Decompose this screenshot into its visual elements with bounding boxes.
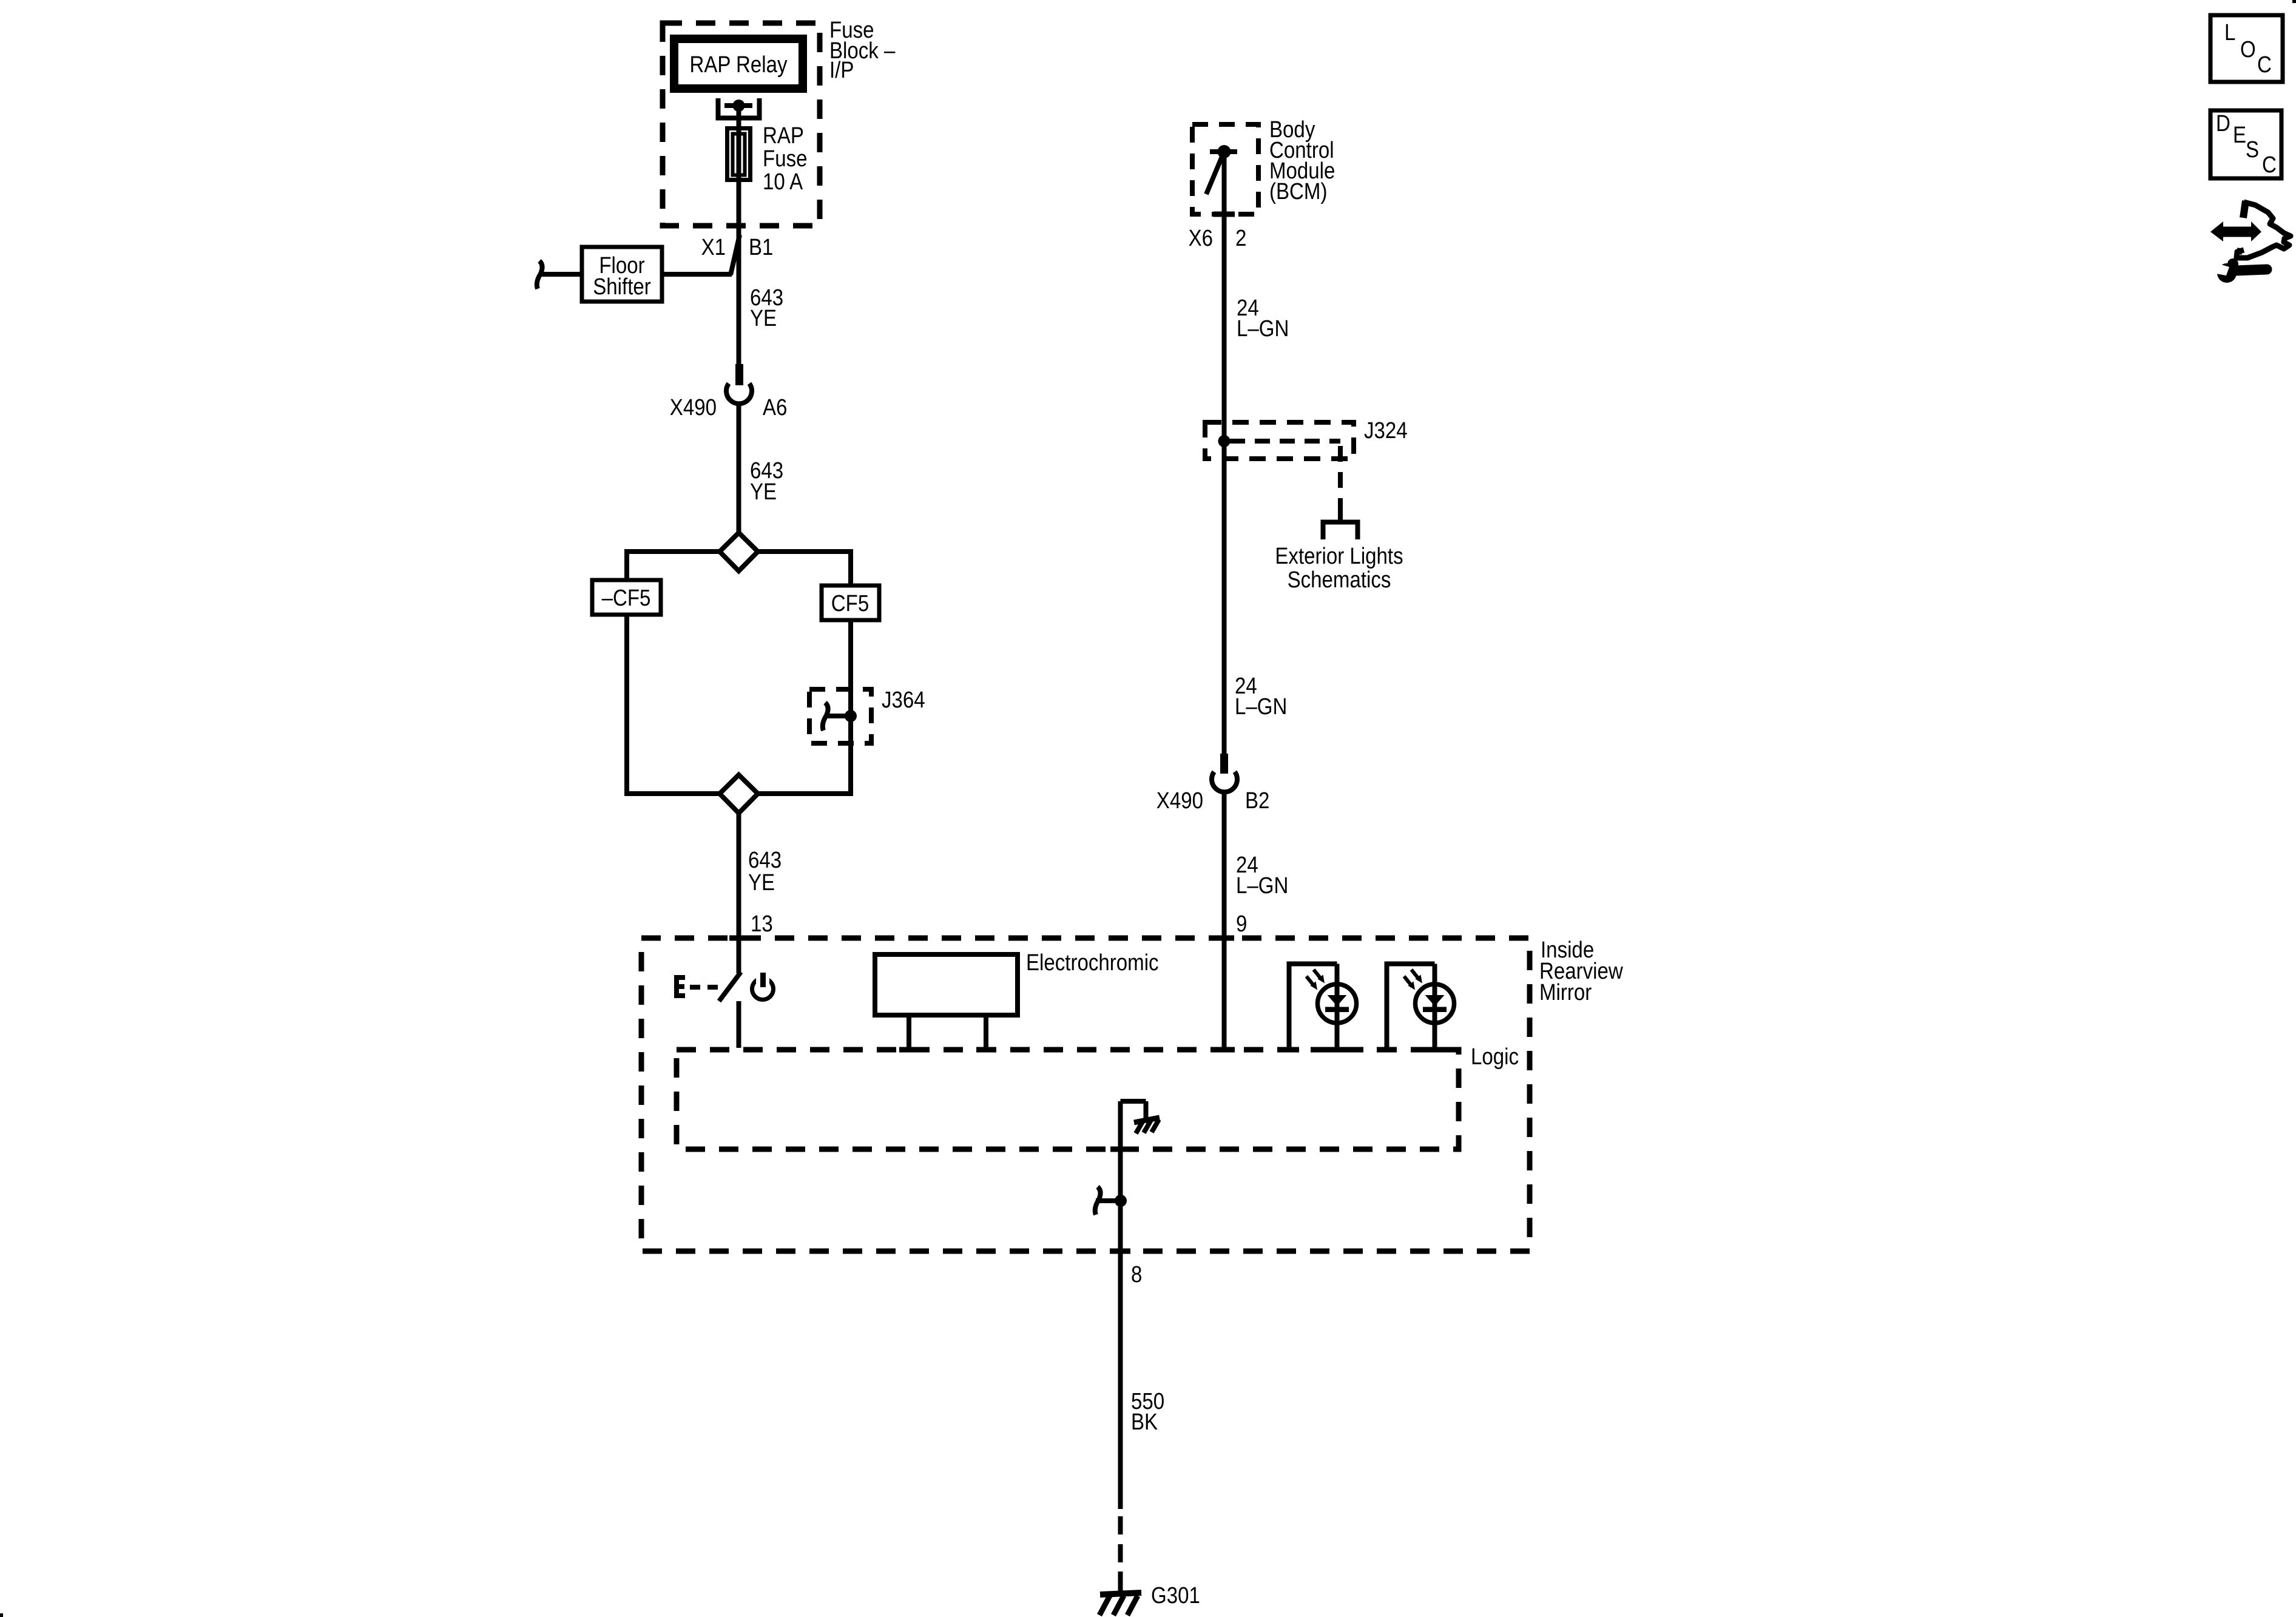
electrochromic legs xyxy=(899,1015,996,1053)
electrochromic element box xyxy=(875,954,1018,1015)
svg-text:Schematics: Schematics xyxy=(1288,567,1391,593)
svg-text:CF5: CF5 xyxy=(831,590,869,616)
svg-text:X6: X6 xyxy=(1189,225,1213,251)
connector X6 / pin 2 labels xyxy=(1189,225,1247,251)
svg-text:J324: J324 xyxy=(1364,417,1408,444)
svg-text:9: 9 xyxy=(1236,911,1247,937)
logic dashed box xyxy=(677,1050,1459,1149)
wire: floor shifter branch xyxy=(541,272,732,277)
DESC legend box xyxy=(2210,110,2281,178)
svg-text:B2: B2 xyxy=(1245,788,1269,814)
relay K: RAP Relay bold box xyxy=(674,39,803,89)
tick: ground wire crossing mirror box bottom xyxy=(1110,1249,1130,1254)
svg-text:RAP: RAP xyxy=(763,123,804,149)
svg-text:L: L xyxy=(2224,19,2235,46)
connector X490/A6 (pin and socket) xyxy=(670,364,788,420)
svg-text:B1: B1 xyxy=(749,234,773,260)
svg-text:L–GN: L–GN xyxy=(1237,316,1289,342)
internal ground of logic xyxy=(1121,1101,1160,1201)
body control module BCM dashed box xyxy=(1192,124,1258,214)
splice J364 dashed box xyxy=(809,689,871,743)
fuse block I/P dashed box xyxy=(663,23,820,226)
photodiode D2 xyxy=(1377,964,1454,1053)
wire label 24 L-GN (second) xyxy=(1235,673,1287,720)
wire: ground wire to box edge xyxy=(1118,1201,1123,1251)
service icon: hand with arrow and wrench xyxy=(2209,201,2291,283)
wire label 24 L-GN (third) xyxy=(1236,852,1288,899)
svg-text:YE: YE xyxy=(750,479,777,505)
svg-text:X490: X490 xyxy=(1156,788,1203,814)
wire: right branch to CF5 xyxy=(758,552,851,586)
svg-text:8: 8 xyxy=(1131,1261,1142,1288)
svg-text:J364: J364 xyxy=(882,687,925,713)
floor shifter box xyxy=(582,247,662,302)
power symbol xyxy=(752,973,774,1000)
box -CF5 xyxy=(592,580,661,615)
svg-text:Mirror: Mirror xyxy=(1539,979,1592,1005)
tick: wire 9 entering mirror box xyxy=(1215,936,1234,941)
connector X1/B1 labels and branch slash xyxy=(701,234,774,275)
page artifact mark top-right xyxy=(2292,0,2296,3)
svg-text:Electrochromic: Electrochromic xyxy=(1026,950,1159,976)
wire: left vertical diamond bottom to mirror box xyxy=(737,812,741,973)
svg-text:YE: YE xyxy=(750,305,777,331)
splice with clip on ground wire xyxy=(1095,1187,1127,1215)
svg-text:–CF5: –CF5 xyxy=(602,585,651,611)
photodiode D1 xyxy=(1279,964,1357,1053)
label: Inside Rearview Mirror xyxy=(1539,937,1623,1005)
svg-text:YE: YE xyxy=(748,869,775,896)
page artifact dot bottom-left xyxy=(0,1613,3,1617)
connector X490/B2 (pin and socket) xyxy=(1156,754,1270,814)
relay contact receptacle (fuse block cavity) xyxy=(718,98,760,118)
label: Fuse Block - I/P xyxy=(829,17,896,83)
box CF5 xyxy=(822,586,879,620)
svg-text:L–GN: L–GN xyxy=(1235,694,1287,720)
wire: BCM output 24 L-GN xyxy=(1222,214,1227,755)
wire label 643 YE (second) xyxy=(750,457,783,505)
tick: ground wire crossing logic box xyxy=(1110,1147,1130,1152)
splice J324 dashed box xyxy=(1205,422,1354,459)
switch actuator E bracket with dashed link xyxy=(674,975,718,998)
label: RAP Fuse 10 A xyxy=(763,123,807,195)
wire: BCM feed inside mirror box down to logic xyxy=(1222,938,1227,1050)
splice diamond (bottom) xyxy=(720,775,758,813)
svg-text:C: C xyxy=(2257,52,2272,78)
wire: dashed continuation xyxy=(1118,1516,1123,1591)
svg-text:A6: A6 xyxy=(763,394,787,420)
svg-text:E: E xyxy=(2233,122,2246,148)
svg-text:10 A: 10 A xyxy=(763,169,803,195)
svg-text:Fuse: Fuse xyxy=(763,146,807,172)
svg-text:D: D xyxy=(2216,110,2230,137)
inside rearview mirror dashed box xyxy=(641,938,1530,1251)
switch S (mirror on/off) xyxy=(719,938,741,1048)
wire: main left vertical (fuse to mirror switch) xyxy=(737,106,741,364)
svg-text:RAP Relay: RAP Relay xyxy=(689,52,787,78)
off-page fork to exterior lights xyxy=(1321,513,1360,539)
svg-text:X490: X490 xyxy=(670,394,717,420)
svg-text:X1: X1 xyxy=(701,234,726,260)
wire below B2 xyxy=(1222,791,1227,938)
fuse F: RAP Fuse 10 A xyxy=(728,129,751,180)
clip hook at floor shifter wire end xyxy=(537,261,542,289)
wire: right branch below CF5 to bottom diamond xyxy=(757,620,851,794)
svg-text:BK: BK xyxy=(1131,1409,1158,1435)
wire label 643 YE (third) xyxy=(748,847,782,896)
svg-text:2: 2 xyxy=(1235,225,1246,251)
svg-text:13: 13 xyxy=(751,911,773,937)
splice dot J324 xyxy=(1218,435,1231,447)
tick: wire 13 entering mirror box xyxy=(729,936,749,941)
wire: left vertical below connector A6 to diamond xyxy=(737,403,741,534)
svg-text:L–GN: L–GN xyxy=(1236,873,1288,899)
svg-text:I/P: I/P xyxy=(829,57,854,83)
svg-text:S: S xyxy=(2246,137,2259,163)
svg-text:Logic: Logic xyxy=(1471,1044,1519,1070)
svg-text:(BCM): (BCM) xyxy=(1269,178,1327,204)
wire label 643 YE (upper) xyxy=(750,285,783,331)
label: Exterior Lights Schematics xyxy=(1275,543,1403,593)
svg-text:G301: G301 xyxy=(1151,1582,1200,1609)
splice diamond (top) xyxy=(720,533,758,571)
wire: left branch to -CF5 xyxy=(627,552,720,581)
wire: left branch below -CF5 to bottom diamond xyxy=(627,615,720,794)
svg-text:Shifter: Shifter xyxy=(593,274,651,300)
svg-text:C: C xyxy=(2262,152,2277,178)
label: Body Control Module (BCM) xyxy=(1269,116,1335,204)
wire: ground run 550 BK xyxy=(1118,1251,1123,1509)
BCM driver contact xyxy=(1206,145,1237,217)
svg-text:O: O xyxy=(2240,36,2256,62)
dashed branch inside J324 xyxy=(1230,439,1340,444)
splice dot and lead inside J364 xyxy=(823,703,857,731)
svg-text:Exterior Lights: Exterior Lights xyxy=(1275,543,1403,569)
LOC legend box xyxy=(2210,15,2283,82)
ground G301 xyxy=(1099,1593,1141,1615)
